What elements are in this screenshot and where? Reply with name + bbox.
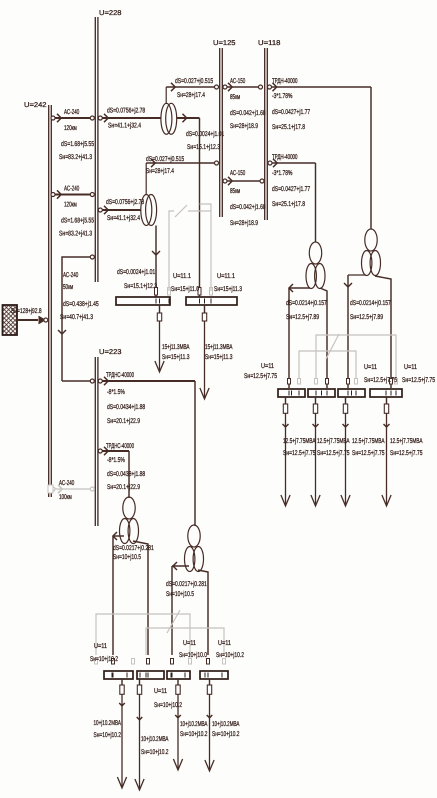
svg-text:dS=0.027+j0.515: dS=0.027+j0.515 xyxy=(146,155,184,163)
svg-text:Sн=10+j10.2: Sн=10+j10.2 xyxy=(141,748,169,756)
svg-text:U=11: U=11 xyxy=(154,688,167,695)
svg-text:Sн=10+j10.2: Sн=10+j10.2 xyxy=(154,701,182,709)
svg-text:Sн=10+j10.5: Sн=10+j10.5 xyxy=(166,590,194,598)
svg-text:-8*1.5%: -8*1.5% xyxy=(107,457,125,464)
svg-text:dS=1.68+j5.55: dS=1.68+j5.55 xyxy=(61,217,94,225)
svg-text:12.5+j7.75МВА: 12.5+j7.75МВА xyxy=(390,437,423,445)
svg-text:Sн=12.5+j7.75: Sн=12.5+j7.75 xyxy=(244,372,277,380)
svg-text:ТРДН-40000: ТРДН-40000 xyxy=(272,154,298,161)
svg-text:U=11: U=11 xyxy=(404,364,417,371)
svg-text:15+j11.3МВА: 15+j11.3МВА xyxy=(162,343,190,351)
svg-text:85км: 85км xyxy=(230,94,240,101)
svg-text:Sн=10+j10.2: Sн=10+j10.2 xyxy=(216,651,244,659)
svg-text:Sн=10+j10.0: Sн=10+j10.0 xyxy=(179,651,207,659)
svg-text:120км: 120км xyxy=(64,202,77,209)
svg-text:ТРДНС-40000: ТРДНС-40000 xyxy=(106,443,134,450)
svg-text:dS=0.0024+j1.01: dS=0.0024+j1.01 xyxy=(117,268,155,276)
svg-text:АС-150: АС-150 xyxy=(230,170,245,177)
svg-text:АС-150: АС-150 xyxy=(230,78,245,85)
svg-text:U=11: U=11 xyxy=(218,640,231,647)
svg-text:Sн=15.1+j12.3: Sн=15.1+j12.3 xyxy=(124,282,157,290)
svg-text:U=11.1: U=11.1 xyxy=(217,273,235,280)
svg-text:Sн=10+j10.2: Sн=10+j10.2 xyxy=(90,655,118,663)
svg-text:100км: 100км xyxy=(59,494,72,501)
svg-text:Sн=12.5+j7.89: Sн=12.5+j7.89 xyxy=(350,313,383,321)
svg-text:10+j10.2МВА: 10+j10.2МВА xyxy=(94,719,122,727)
svg-text:АС-240: АС-240 xyxy=(59,480,74,487)
svg-text:15+j11.3МВА: 15+j11.3МВА xyxy=(205,343,233,351)
svg-text:Sн=15+j11.3: Sн=15+j11.3 xyxy=(162,353,190,361)
svg-text:U=228: U=228 xyxy=(99,10,122,17)
svg-text:АС-240: АС-240 xyxy=(64,109,79,116)
svg-text:dS=0.0438+j1.88: dS=0.0438+j1.88 xyxy=(107,470,145,478)
svg-text:Sн=12.5+j7.75: Sн=12.5+j7.75 xyxy=(283,449,316,457)
svg-text:dS=0.0756+j2.78: dS=0.0756+j2.78 xyxy=(107,107,145,115)
svg-text:Sн=10+j10.2: Sн=10+j10.2 xyxy=(180,730,208,738)
svg-text:U=11.1: U=11.1 xyxy=(173,273,191,280)
svg-text:Sн=12.5+j7.75: Sн=12.5+j7.75 xyxy=(317,449,350,457)
svg-text:Sн=25.1+j17.8: Sн=25.1+j17.8 xyxy=(272,123,305,131)
svg-text:Sн=40.7+j41.3: Sн=40.7+j41.3 xyxy=(60,313,93,321)
svg-text:dS=0.0024+j1.01: dS=0.0024+j1.01 xyxy=(186,130,224,138)
svg-text:Sн=41.1+j32.4: Sн=41.1+j32.4 xyxy=(107,214,140,222)
svg-text:10+j10.2МВА: 10+j10.2МВА xyxy=(180,720,208,728)
svg-text:Sн=41.1+j32.4: Sн=41.1+j32.4 xyxy=(108,122,141,130)
svg-text:U=118: U=118 xyxy=(258,40,281,47)
svg-text:-3*1.78%: -3*1.78% xyxy=(272,170,292,177)
svg-text:dS=0.0756+j2.78: dS=0.0756+j2.78 xyxy=(106,198,144,206)
svg-text:U=242: U=242 xyxy=(24,102,47,109)
svg-text:85км: 85км xyxy=(230,188,240,195)
svg-text:120км: 120км xyxy=(64,125,77,132)
svg-text:Sн=15+j11.0: Sн=15+j11.0 xyxy=(171,285,199,293)
svg-text:Sн=15+j11.3: Sн=15+j11.3 xyxy=(214,285,242,293)
svg-text:Sн=28+j17.4: Sн=28+j17.4 xyxy=(177,91,205,99)
svg-text:-8*1.5%: -8*1.5% xyxy=(107,389,125,396)
svg-text:12.5+j7.75МВА: 12.5+j7.75МВА xyxy=(283,437,316,445)
svg-text:Sн=15.1+j12.3: Sн=15.1+j12.3 xyxy=(187,143,220,151)
svg-text:ТРДНС-40000: ТРДНС-40000 xyxy=(106,372,134,379)
svg-text:10+j10.2МВА: 10+j10.2МВА xyxy=(212,720,240,728)
svg-text:10+j10.2МВА: 10+j10.2МВА xyxy=(141,735,169,743)
svg-text:U=11: U=11 xyxy=(94,643,107,650)
svg-text:dS=0.0214+j0.157: dS=0.0214+j0.157 xyxy=(350,299,391,307)
svg-text:Sн=12.5+j7.75: Sн=12.5+j7.75 xyxy=(390,449,423,457)
svg-text:АС-240: АС-240 xyxy=(63,272,78,279)
svg-text:Sн=25.1+j17.8: Sн=25.1+j17.8 xyxy=(272,200,305,208)
svg-text:Sн=12.5+j7.75: Sн=12.5+j7.75 xyxy=(402,376,435,384)
svg-text:dS=0.027+j0.515: dS=0.027+j0.515 xyxy=(175,77,213,85)
svg-text:dS=0.0427+j1.77: dS=0.0427+j1.77 xyxy=(272,108,310,116)
svg-text:Sн=12.5+j7.89: Sн=12.5+j7.89 xyxy=(286,313,319,321)
svg-text:Sн=12.5+j7.75: Sн=12.5+j7.75 xyxy=(352,449,385,457)
svg-text:U=125: U=125 xyxy=(213,40,236,47)
svg-text:dS=0.042+j1.68: dS=0.042+j1.68 xyxy=(230,109,266,117)
svg-text:Sн=83.2+j41.3: Sн=83.2+j41.3 xyxy=(59,153,92,161)
svg-text:Sн=28+j18.9: Sн=28+j18.9 xyxy=(230,219,258,227)
svg-text:dS=1.68+j5.55: dS=1.68+j5.55 xyxy=(61,140,94,148)
svg-text:dS=0.0427+j1.77: dS=0.0427+j1.77 xyxy=(272,185,310,193)
svg-text:Sн=12.5+j7.75: Sн=12.5+j7.75 xyxy=(364,376,397,384)
svg-text:U=11: U=11 xyxy=(183,640,196,647)
svg-text:ТРДН-40000: ТРДН-40000 xyxy=(272,78,298,85)
svg-text:dS=0.0214+j0.157: dS=0.0214+j0.157 xyxy=(286,299,327,307)
svg-text:U=11: U=11 xyxy=(364,364,377,371)
svg-text:dS=0.042+j1.68: dS=0.042+j1.68 xyxy=(230,203,266,211)
svg-text:Sн=10+j10.2: Sн=10+j10.2 xyxy=(94,731,122,739)
svg-text:Sн=20.1+j22.9: Sн=20.1+j22.9 xyxy=(107,417,140,425)
svg-text:dS=0.438+j1.45: dS=0.438+j1.45 xyxy=(63,300,99,308)
svg-text:U=223: U=223 xyxy=(99,349,122,356)
svg-text:dS=0.0217+j0.281: dS=0.0217+j0.281 xyxy=(113,544,154,552)
svg-text:dS=0.0217+j0.281: dS=0.0217+j0.281 xyxy=(166,580,207,588)
svg-text:-3*1.78%: -3*1.78% xyxy=(272,93,292,100)
svg-text:12.5+j7.75МВА: 12.5+j7.75МВА xyxy=(317,437,350,445)
svg-text:АС-240: АС-240 xyxy=(64,186,79,193)
svg-text:Sн=15+j11.3: Sн=15+j11.3 xyxy=(205,353,233,361)
svg-text:Sн=28+j17.4: Sн=28+j17.4 xyxy=(146,167,174,175)
svg-text:Sн=28+j18.9: Sн=28+j18.9 xyxy=(230,122,258,130)
svg-text:dS=0.0434+j1.88: dS=0.0434+j1.88 xyxy=(107,403,145,411)
svg-text:Sн=128+j92.8: Sн=128+j92.8 xyxy=(11,307,42,315)
svg-text:U=11: U=11 xyxy=(261,363,274,370)
svg-text:Sн=10+j10.2: Sн=10+j10.2 xyxy=(212,730,240,738)
svg-text:50км: 50км xyxy=(63,284,73,291)
svg-text:Sн=83.2+j41.3: Sн=83.2+j41.3 xyxy=(59,230,92,238)
svg-text:12.5+j7.75МВА: 12.5+j7.75МВА xyxy=(352,437,385,445)
svg-text:Sн=20.1+j22.9: Sн=20.1+j22.9 xyxy=(107,483,140,491)
svg-text:Sн=10+j10.5: Sн=10+j10.5 xyxy=(113,553,141,561)
